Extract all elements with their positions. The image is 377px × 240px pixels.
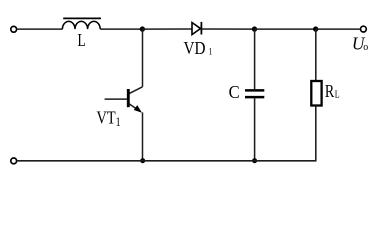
svg-text:C: C [229, 83, 240, 103]
transistor VT1 [105, 87, 143, 113]
svg-text:VT: VT [97, 109, 116, 128]
label RL [325, 83, 340, 102]
node E (junction C / bottom rail) [252, 158, 257, 163]
label VD1 [184, 38, 213, 58]
label Uo [352, 33, 368, 53]
emitter lead with arrow [129, 104, 140, 111]
svg-text:1: 1 [209, 46, 213, 57]
wire: capacitor top drop from node B [254, 29, 256, 89]
wire: bottom rail [17, 160, 316, 162]
svg-text:R: R [325, 83, 335, 102]
diode VD1 [192, 22, 201, 35]
resistor RL [311, 81, 321, 106]
terminal: input bottom-left [11, 158, 17, 164]
node B (junction VD1 / C) [252, 26, 257, 31]
wire: emitter drop to bottom rail [142, 112, 144, 160]
node C (junction C / RL) [313, 26, 318, 31]
wire: RL top drop from node C [315, 29, 317, 81]
svg-text:L: L [335, 89, 340, 100]
wire: top rail from input terminal to inductor [17, 28, 62, 30]
inductor L [62, 18, 101, 29]
wire: top rail node B to node C [255, 28, 316, 30]
base bar [127, 89, 130, 107]
wire: top rail node A to diode anode [143, 28, 193, 30]
wire: top rail inductor to node A [100, 28, 142, 30]
node A (junction L / VT1 / VD1) [140, 26, 145, 31]
svg-text:o: o [363, 42, 368, 54]
label VT1 [97, 109, 121, 129]
collector lead [129, 87, 142, 94]
base lead [105, 98, 128, 100]
svg-text:1: 1 [116, 116, 121, 129]
wire: top rail diode cathode to node B [201, 28, 254, 30]
wire: capacitor bottom drop to node E [254, 98, 256, 161]
capacitor C [245, 90, 264, 97]
svg-text:VD: VD [184, 38, 206, 58]
wire: RL bottom drop to bottom rail corner [315, 106, 317, 161]
svg-text:L: L [78, 31, 86, 50]
terminal: input top-left [11, 26, 17, 32]
wire: top rail node C to output terminal [316, 28, 360, 30]
terminal: output Uo top-right [361, 26, 367, 32]
wire: collector drop from node A [142, 29, 144, 87]
node D (junction emitter / bottom rail) [140, 158, 145, 163]
